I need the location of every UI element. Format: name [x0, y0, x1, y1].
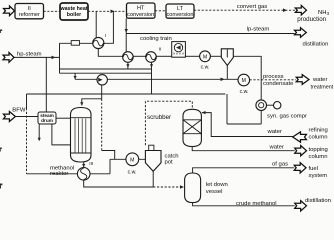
wire catch pot overhead dashed to scrubber: [145, 101, 192, 145]
wire between cooling exchangers: [133, 55, 146, 57]
box HT conversion: [127, 3, 156, 18]
svg-text:column: column: [309, 154, 328, 160]
svg-text:III: III: [89, 161, 93, 167]
wire left line into interchanger: [27, 173, 78, 175]
block arrow lp-steam to distillation: [295, 28, 307, 38]
box LT conversion: [166, 4, 194, 18]
wire compressor to motor: [267, 104, 274, 106]
scan artifact left edge 1: [0, 30, 2, 34]
wire left vertical from loop down to interchanger: [26, 94, 28, 108]
svg-text:distillation: distillation: [305, 198, 331, 204]
hp-steam block arrow: [3, 53, 14, 63]
block arrow distillation (bottom): [295, 201, 307, 211]
svg-text:M: M: [203, 54, 207, 60]
M cooler loop (c.w.): [126, 153, 139, 166]
svg-text:c.w.: c.w.: [201, 65, 210, 71]
svg-text:conversion: conversion: [166, 12, 193, 18]
heat exchanger I: [93, 37, 104, 48]
wire off gas line to fuel system: [193, 168, 295, 173]
block arrow topping column: [295, 146, 307, 156]
wire horizontal y69: [60, 68, 152, 70]
svg-text:vessel: vessel: [206, 189, 223, 195]
svg-text:reformer: reformer: [19, 12, 40, 18]
feed block arrow into reformer: [4, 6, 15, 16]
wire LT conversion to NH3 production (dashed, convert gas): [194, 9, 295, 11]
wire drum downcomer to reactor: [52, 124, 71, 145]
wire horizontal y73.2: [60, 72, 152, 74]
svg-text:I: I: [105, 33, 106, 39]
wire jog down to circulator line: [74, 73, 76, 79]
svg-text:let down: let down: [206, 182, 228, 188]
svg-text:hp-steam: hp-steam: [17, 52, 42, 58]
wire cooling 2 to fan box: [156, 55, 171, 57]
wire catch pot bottom stem: [152, 171, 154, 187]
svg-text:topping: topping: [309, 147, 328, 153]
wire from HT box bottom down to cooling train corner: [125, 18, 127, 52]
scrubber vessel: [183, 109, 201, 146]
svg-text:condensate: condensate: [263, 81, 294, 87]
wire reactor feed elbow: [82, 99, 102, 106]
svg-text:M: M: [242, 78, 246, 84]
wire from top dashed line down into exchanger I top: [95, 11, 97, 38]
wire cooler line y159.3: [110, 158, 145, 160]
wire WHB to HT conversion (dashed): [88, 10, 127, 12]
valve/orifice box: [71, 41, 79, 46]
svg-text:crude methanol: crude methanol: [236, 201, 277, 207]
svg-text:refining: refining: [309, 127, 328, 133]
wire reformer to waste heat boiler (dashed): [44, 10, 61, 12]
svg-text:system: system: [309, 173, 328, 179]
wire crude methanol to distillation: [193, 203, 295, 206]
steam drum: [38, 112, 56, 124]
svg-text:scrubber: scrubber: [147, 114, 171, 121]
wire drum to reactor riser: [56, 117, 71, 119]
scan artifact left edge 3: [0, 184, 2, 189]
motor circle: [274, 102, 281, 109]
heat exchanger cooling 1: [123, 52, 134, 63]
wire dogleg from circulator line to cooler line: [102, 151, 115, 160]
wire main loop line y94: [27, 93, 226, 95]
svg-text:production: production: [297, 16, 326, 23]
wire exchanger I bottom to cooling train: [98, 49, 122, 57]
wire condensate / circulator line y79.3: [75, 78, 238, 80]
svg-text:water: water: [267, 129, 282, 135]
svg-text:II: II: [159, 47, 162, 53]
svg-text:II: II: [28, 6, 32, 12]
svg-text:c.w.: c.w.: [240, 89, 249, 95]
wire circulator bottom down: [101, 85, 103, 99]
wire BFW to drum: [15, 116, 38, 118]
svg-text:water: water: [269, 145, 284, 151]
wire drum blowdown stem: [38, 124, 40, 140]
block arrow fuel system: [294, 163, 306, 173]
block arrow water treatment: [296, 75, 309, 85]
M cooler condensate (c.w.): [238, 74, 250, 86]
wire hp-steam: [14, 56, 60, 58]
box reformer: [15, 4, 44, 19]
svg-text:process: process: [263, 74, 284, 80]
wire separator bottom condensate: [226, 66, 228, 80]
box waste heat boiler: [60, 3, 88, 20]
svg-text:convert gas: convert gas: [237, 4, 268, 10]
heat exchanger cooling 2: [146, 52, 157, 63]
scan artifact left edge 2: [0, 148, 2, 152]
svg-text:drum: drum: [41, 118, 53, 123]
block arrow from refining column (points left): [293, 132, 307, 142]
M cooler (c.w.): [200, 51, 211, 62]
svg-text:pot: pot: [165, 159, 174, 165]
wire vertical x59.5: [59, 43, 61, 73]
svg-text:treatment: treatment: [311, 84, 334, 90]
wire interchanger bottom to letdown line: [84, 180, 154, 187]
svg-text:c.w.: c.w.: [128, 169, 137, 175]
wire cooling exch 2 stem down to loop: [151, 62, 153, 94]
svg-text:cooling train: cooling train: [140, 36, 172, 42]
separator vessel I: [221, 49, 233, 66]
svg-text:lp-steam: lp-steam: [247, 26, 270, 32]
block arrow NH3 production: [295, 5, 306, 15]
wire refining water into scrubber: [202, 113, 293, 137]
svg-text:HT: HT: [137, 6, 145, 12]
arrowhead on dashed wire: [111, 10, 115, 14]
wire dashed into let down vessel: [153, 186, 183, 188]
svg-text:syn. gas compr: syn. gas compr: [267, 114, 307, 120]
wire M cooler to separator: [210, 55, 221, 57]
air cooler box with fan: [172, 42, 186, 58]
let down vessel: [185, 173, 201, 203]
catch pot: [145, 145, 161, 171]
interchanger exchanger: [77, 168, 90, 181]
svg-text:boiler: boiler: [67, 12, 81, 18]
wire scrubber bottoms to topping column: [192, 147, 295, 151]
wire separator to compressor suction: [233, 56, 261, 100]
syn gas compressor: [256, 100, 267, 111]
wire interchanger right to circulator vertical: [90, 173, 110, 175]
wire from dashed line down then left into exchanger I right: [104, 11, 114, 43]
wire fan box to M cooler: [185, 55, 199, 57]
wire hp-steam down to steam drum: [45, 57, 47, 112]
svg-text:distillation: distillation: [303, 41, 329, 47]
svg-text:M: M: [130, 157, 134, 163]
svg-text:of gas: of gas: [272, 161, 288, 167]
wire HT to LT (dashed): [155, 10, 166, 12]
svg-text:conversion: conversion: [127, 12, 154, 18]
svg-text:column: column: [309, 135, 328, 141]
wire loop bottom to compressor: [227, 123, 261, 125]
wire right loop down: [226, 94, 228, 124]
methanol reaktor vessel: [71, 108, 92, 163]
svg-text:fuel: fuel: [309, 166, 319, 172]
wire compressor discharge stem: [260, 111, 262, 125]
wire reactor outlet stem to interchanger: [83, 162, 85, 167]
BFW block arrow: [3, 112, 15, 122]
wire cooling exch 1 stem: [127, 62, 129, 69]
wire lp-steam line: [126, 33, 294, 35]
svg-text:BFW: BFW: [12, 108, 26, 114]
wire process condensate dashed to water treatment: [250, 79, 296, 81]
circulator: [97, 75, 107, 85]
wire valve line to exchanger I: [60, 42, 93, 44]
svg-text:water: water: [312, 77, 327, 83]
